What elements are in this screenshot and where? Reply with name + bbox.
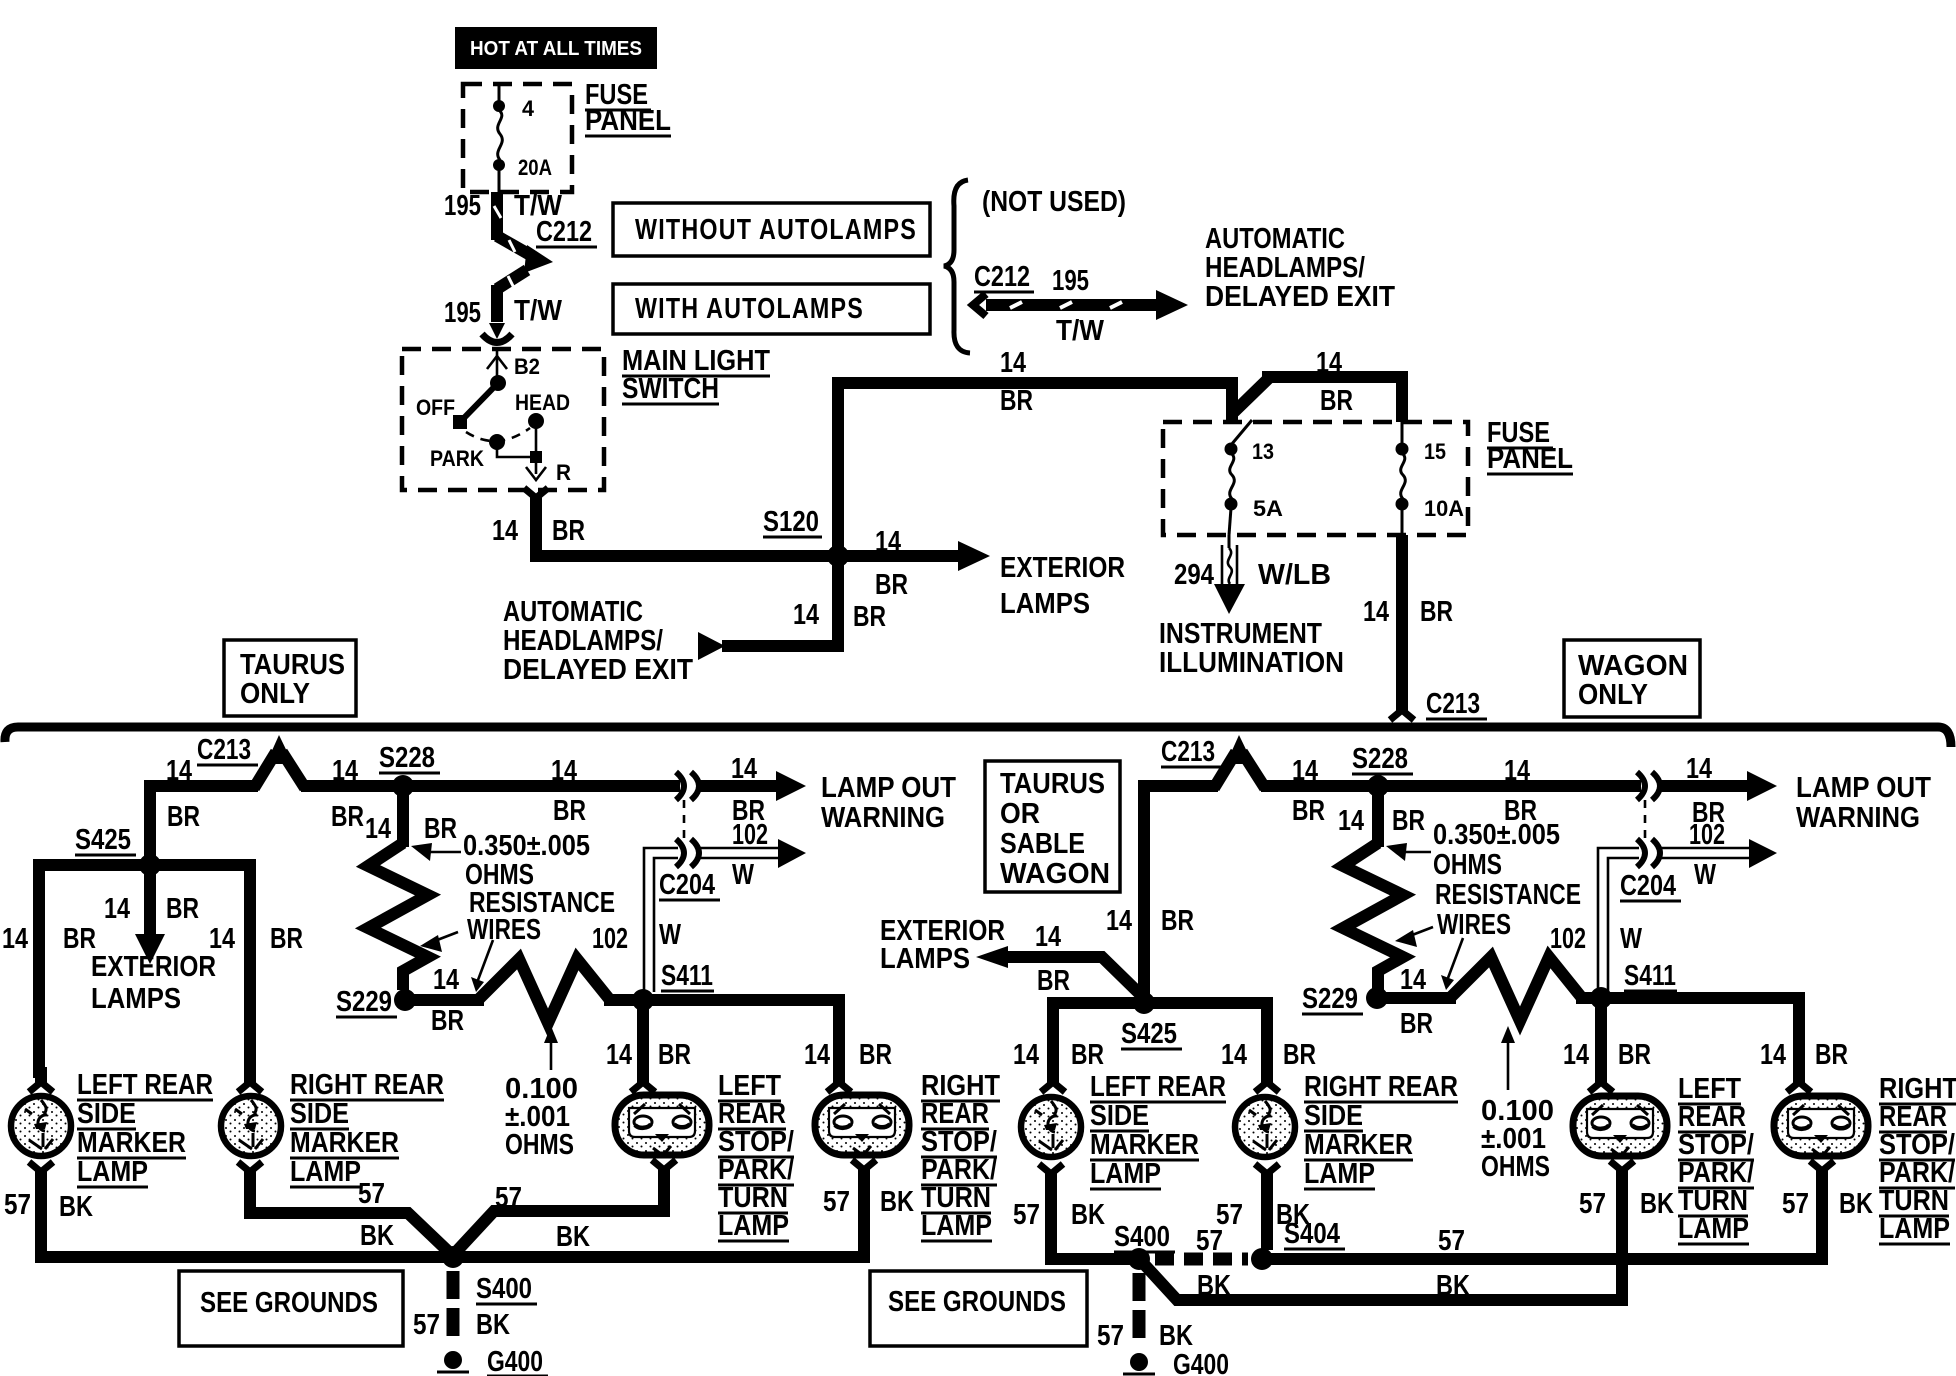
svg-text:BK: BK [1839, 1188, 1873, 1220]
connector at right marker lamp (taurus) [238, 1067, 262, 1092]
svg-text:BR: BR [1161, 905, 1194, 937]
splice S229 (taurus) [336, 986, 416, 1018]
svg-text:BR: BR [1320, 385, 1353, 417]
svg-text:LAMP: LAMP [77, 1156, 148, 1188]
svg-text:S120: S120 [763, 506, 819, 538]
svg-text:T/W: T/W [514, 295, 563, 327]
svg-text:0.350±.005: 0.350±.005 [463, 830, 590, 862]
svg-text:S425: S425 [75, 824, 131, 856]
svg-text:C212: C212 [536, 216, 592, 248]
svg-text:LEFT REAR: LEFT REAR [1090, 1071, 1226, 1103]
svg-text:14: 14 [875, 526, 901, 558]
brace [944, 180, 970, 353]
svg-text:0.350±.005: 0.350±.005 [1433, 819, 1560, 851]
wire 14 BR S228 to C204 [403, 755, 680, 827]
thin wire 102 W arrow to lamp out warning (wagon) [1661, 819, 1777, 891]
dashed link S400 to S404 (wagon) [1155, 1225, 1248, 1302]
connector C204 chevrons power (wagon) [1637, 772, 1660, 800]
svg-text:57: 57 [1013, 1199, 1040, 1231]
connector below left stop lamp (taurus) [652, 1160, 676, 1185]
svg-text:BR: BR [553, 795, 586, 827]
svg-text:BK: BK [476, 1309, 510, 1341]
wire S411 to right stop lamp (wagon) [1601, 998, 1848, 1078]
svg-text:BR: BR [166, 893, 199, 925]
svg-text:102: 102 [732, 819, 768, 851]
ground wire 57 BK right stop lamp to S404 (wagon) [1267, 1179, 1873, 1259]
svg-text:SIDE: SIDE [77, 1098, 136, 1130]
svg-text:BR: BR [1400, 1008, 1433, 1040]
label EXTERIOR LAMPS (wagon) [880, 915, 1005, 975]
contact OFF [416, 395, 467, 429]
ground G400 (wagon) [1123, 1349, 1229, 1376]
ground wire 57 BK left marker to S400 (taurus) [4, 1180, 448, 1257]
wire 14 BR S228 down to resistor (wagon) [1338, 786, 1425, 847]
label RIGHT REAR SIDE MARKER LAMP (taurus) [290, 1069, 444, 1188]
svg-text:14: 14 [433, 964, 459, 996]
ground wire 57 BK right marker to S400 (taurus) [250, 1178, 452, 1255]
svg-text:BR: BR [875, 569, 908, 601]
label 0.350 ohms resistance wires (taurus) [463, 830, 615, 946]
svg-text:BR: BR [1815, 1039, 1848, 1071]
svg-text:C212: C212 [974, 261, 1030, 293]
ground stub 57 BK S400 to G400 (taurus) [413, 1271, 510, 1341]
contact PARK [430, 434, 505, 471]
svg-text:WITH AUTOLAMPS: WITH AUTOLAMPS [635, 293, 864, 325]
svg-text:14: 14 [1363, 596, 1389, 628]
wire 14 BR feed to fuse panel (left segment) [838, 347, 1232, 422]
svg-text:S400: S400 [1114, 1221, 1170, 1253]
connector C212 autolamps branch [973, 261, 1188, 347]
svg-text:14: 14 [804, 1039, 830, 1071]
label INSTRUMENT ILLUMINATION [1159, 618, 1344, 679]
svg-text:BK: BK [360, 1220, 394, 1252]
label LAMP OUT WARNING (wagon) [1796, 772, 1931, 834]
label RIGHT REAR SIDE MARKER LAMP (wagon) [1304, 1071, 1458, 1190]
svg-text:BR: BR [1420, 596, 1453, 628]
arrow 14 BR to lamp out warning (taurus) [700, 753, 806, 827]
wire S411 to left stop lamp (taurus) [604, 1000, 691, 1078]
svg-text:S411: S411 [661, 960, 713, 992]
lamp right rear side marker (taurus) [221, 1096, 281, 1156]
svg-text:S229: S229 [1302, 983, 1358, 1015]
ground wire 57 BK right marker to S404 (wagon) [1216, 1182, 1310, 1250]
tag box TAURUS OR SABLE WAGON [985, 761, 1120, 892]
wire 14 BR fuse 15 down to C213 [1363, 535, 1453, 708]
svg-text:14: 14 [166, 755, 192, 787]
connector at right stop lamp (taurus) [827, 1067, 851, 1092]
svg-text:BK: BK [1640, 1188, 1674, 1220]
svg-text:S228: S228 [379, 742, 435, 774]
svg-text:57: 57 [823, 1186, 850, 1218]
ground wire 57 BK left stop lamp to S400 (wagon) [1143, 1179, 1674, 1300]
arrow exterior lamps feed (wagon) [976, 921, 1147, 1001]
fuse 15 10A [1396, 422, 1465, 535]
svg-text:57: 57 [1579, 1188, 1606, 1220]
svg-text:PANEL: PANEL [1487, 443, 1573, 475]
svg-text:14: 14 [1221, 1039, 1247, 1071]
svg-text:BR: BR [167, 801, 200, 833]
wire 14 BR from switch to S120 [492, 508, 838, 562]
svg-text:OR: OR [1000, 798, 1040, 830]
svg-text:C213: C213 [197, 734, 251, 766]
svg-text:WAGON: WAGON [1578, 650, 1688, 682]
label LEFT REAR SIDE MARKER LAMP (taurus) [77, 1069, 213, 1188]
svg-text:RESISTANCE: RESISTANCE [1435, 879, 1581, 911]
svg-text:WIRES: WIRES [1437, 909, 1511, 941]
svg-text:SWITCH: SWITCH [622, 373, 719, 405]
connector below right marker lamp (wagon) [1255, 1164, 1279, 1189]
switch internal wiring to R [497, 421, 571, 485]
wire S411 to right stop lamp (taurus) [643, 1000, 892, 1078]
svg-text:BK: BK [1436, 1270, 1470, 1302]
annotation arrow to 0.100 wire (wagon) [1441, 938, 1463, 990]
svg-text:10A: 10A [1424, 496, 1464, 521]
svg-text:57: 57 [1438, 1225, 1465, 1257]
wire S425 to right marker lamp (wagon) [1144, 1003, 1316, 1078]
wire S425 to left marker lamp (wagon) [1013, 1003, 1144, 1078]
ground G400 (taurus) [437, 1346, 548, 1376]
wire riser S120 up to BR feed [832, 377, 844, 556]
svg-text:195: 195 [444, 190, 481, 222]
svg-text:LAMPS: LAMPS [880, 943, 970, 975]
svg-text:102: 102 [1689, 819, 1725, 851]
option box WITH AUTOLAMPS [613, 284, 930, 334]
svg-text:ONLY: ONLY [1578, 679, 1648, 711]
connector at main light switch B2 [482, 323, 512, 343]
svg-text:14: 14 [104, 893, 130, 925]
annotation arrow to 0.100 wire (taurus) [471, 940, 493, 992]
svg-text:W: W [1620, 923, 1643, 955]
wire 195 T/W lower [444, 285, 563, 329]
svg-text:195: 195 [1052, 265, 1089, 297]
connector C212 (in-line) [494, 206, 597, 312]
svg-text:S228: S228 [1352, 743, 1408, 775]
connector C204 chevrons sense (wagon) [1620, 839, 1681, 902]
svg-text:HEADLAMPS/: HEADLAMPS/ [503, 625, 663, 657]
svg-text:14: 14 [1035, 921, 1061, 953]
splice S228 (taurus) [379, 742, 440, 797]
switch throw arc [466, 428, 530, 441]
svg-text:5A: 5A [1253, 496, 1283, 521]
connector C213 lower (taurus) [197, 734, 305, 788]
svg-text:195: 195 [444, 297, 481, 329]
splice S120 [763, 506, 849, 567]
wire 14 BR C213 to S228 [301, 755, 403, 833]
svg-text:14: 14 [2, 923, 28, 955]
svg-text:EXTERIOR: EXTERIOR [1000, 552, 1125, 584]
svg-text:14: 14 [731, 753, 757, 785]
annotation arrow 0.100 (taurus) [544, 1026, 558, 1070]
svg-text:W/LB: W/LB [1258, 559, 1331, 591]
connector below right marker lamp (taurus) [238, 1162, 262, 1187]
svg-text:4: 4 [522, 96, 535, 121]
wire 14 BR S229 to 0.100 resistor [405, 964, 484, 1037]
svg-text:S404: S404 [1284, 1218, 1340, 1250]
splice S425 (taurus) [75, 824, 161, 876]
svg-text:57: 57 [495, 1182, 522, 1214]
svg-text:C204: C204 [1620, 870, 1676, 902]
svg-text:BR: BR [1071, 1039, 1104, 1071]
annotation arrow lower resistor (taurus) [420, 932, 458, 952]
svg-text:AUTOMATIC: AUTOMATIC [1205, 223, 1345, 255]
splice S400 (taurus) [442, 1246, 537, 1305]
fuse 13 5A [1225, 420, 1284, 535]
thin wire 102 W from C204 down to S411 (wagon) [1598, 848, 1643, 992]
svg-text:MARKER: MARKER [290, 1127, 399, 1159]
label 0.350 ohms resistance wires (wagon) [1433, 819, 1581, 941]
svg-text:102: 102 [1550, 923, 1586, 955]
svg-text:RIGHT REAR: RIGHT REAR [290, 1069, 444, 1101]
fuse 4 20A [493, 84, 552, 192]
lamp right rear stop/park/turn (wagon) [1774, 1096, 1868, 1156]
svg-text:LAMP: LAMP [1090, 1158, 1161, 1190]
label FUSE PANEL (upper) [585, 79, 671, 137]
annotation arrow lower resistor (wagon) [1395, 927, 1433, 947]
svg-text:14: 14 [1013, 1039, 1039, 1071]
option box WITHOUT AUTOLAMPS [613, 203, 930, 256]
connector at left stop lamp (taurus) [631, 1067, 655, 1092]
svg-text:20A: 20A [518, 155, 552, 180]
svg-text:TAURUS: TAURUS [1000, 768, 1105, 800]
svg-text:OHMS: OHMS [1433, 849, 1502, 881]
svg-text:14: 14 [1106, 905, 1132, 937]
ground stub 57 BK S400 to G400 (wagon) [1097, 1273, 1193, 1352]
svg-text:BK: BK [59, 1191, 93, 1223]
ground wire 57 BK left marker to S400 (wagon) [1013, 1182, 1139, 1259]
svg-text:MARKER: MARKER [77, 1127, 186, 1159]
svg-text:BR: BR [853, 601, 886, 633]
fuse panel (lower) dashed box [1163, 422, 1468, 535]
connector at left marker lamp (taurus) [29, 1067, 53, 1092]
svg-text:C213: C213 [1426, 688, 1480, 720]
splice S228 (wagon) [1352, 743, 1413, 797]
svg-text:BR: BR [1292, 795, 1325, 827]
svg-text:HOT AT ALL TIMES: HOT AT ALL TIMES [470, 38, 642, 60]
svg-text:W: W [1694, 859, 1717, 891]
thin wire 102 W arrow to lamp out warning (taurus) [700, 819, 806, 891]
svg-text:SEE GROUNDS: SEE GROUNDS [200, 1287, 378, 1319]
wire 14 BR S228 to C204 (wagon) [1378, 755, 1641, 827]
connector at left stop lamp (wagon) [1589, 1067, 1613, 1092]
label LEFT REAR STOP/PARK/TURN LAMP (taurus) [718, 1070, 794, 1242]
svg-text:W: W [732, 859, 755, 891]
connector below switch R [524, 488, 548, 513]
ground wire 57 BK left stop lamp to S400 (taurus) [455, 1178, 664, 1253]
svg-text:DELAYED EXIT: DELAYED EXIT [503, 654, 693, 686]
svg-text:SEE GROUNDS: SEE GROUNDS [888, 1286, 1066, 1318]
svg-text:57: 57 [4, 1189, 31, 1221]
label RIGHT REAR STOP/PARK/TURN LAMP (taurus) [921, 1070, 1000, 1242]
svg-text:LAMP: LAMP [921, 1210, 992, 1242]
svg-text:OHMS: OHMS [1481, 1151, 1550, 1183]
label LEFT REAR STOP/PARK/TURN LAMP (wagon) [1678, 1073, 1754, 1245]
label EXTERIOR LAMPS (taurus) [91, 951, 216, 1015]
connector C204 dashed link [683, 800, 686, 840]
note box SEE GROUNDS (taurus) [179, 1271, 403, 1346]
svg-text:HEAD: HEAD [515, 390, 570, 415]
splice S404 (wagon) [1251, 1218, 1345, 1270]
svg-text:(NOT USED): (NOT USED) [982, 186, 1126, 218]
thin wire 102 W from C204 down to S411 (taurus) [644, 848, 682, 992]
svg-text:14: 14 [551, 755, 577, 787]
lamp left rear side marker (wagon) [1021, 1097, 1081, 1157]
svg-text:BR: BR [1000, 385, 1033, 417]
svg-text:C213: C213 [1161, 736, 1215, 768]
svg-text:S425: S425 [1121, 1018, 1177, 1050]
svg-text:BR: BR [424, 813, 457, 845]
svg-text:MARKER: MARKER [1304, 1129, 1413, 1161]
label FUSE PANEL (lower) [1487, 417, 1573, 475]
svg-text:SABLE: SABLE [1000, 828, 1085, 860]
svg-text:14: 14 [1563, 1039, 1589, 1071]
resistance wire 0.100 ohms (taurus) [478, 959, 610, 1023]
annotation arrow upper resistor (taurus) [411, 843, 461, 861]
lamp left rear stop/park/turn (wagon) [1573, 1096, 1667, 1156]
svg-text:BR: BR [1392, 805, 1425, 837]
wire 14 BR S228 down to resistor (taurus) [365, 786, 457, 847]
svg-text:RIGHT REAR: RIGHT REAR [1304, 1071, 1458, 1103]
connector at left marker lamp (wagon) [1041, 1067, 1065, 1092]
wire S411 to left stop lamp (wagon) [1563, 998, 1651, 1078]
wire 294 W/LB to instrument illumination [1174, 535, 1331, 614]
svg-text:BR: BR [859, 1039, 892, 1071]
note box SEE GROUNDS (wagon) [870, 1271, 1087, 1346]
connector at right stop lamp (wagon) [1787, 1067, 1811, 1092]
wire S425 to right marker lamp (taurus) [150, 865, 303, 1078]
splice S411 (wagon) [1590, 960, 1677, 1009]
connector below left marker lamp (wagon) [1039, 1164, 1063, 1189]
svg-text:14: 14 [606, 1039, 632, 1071]
svg-text:PARK: PARK [430, 446, 484, 471]
svg-text:EXTERIOR: EXTERIOR [91, 951, 216, 983]
switch wiper arm [461, 383, 498, 421]
splice S425 (wagon) [1121, 992, 1182, 1050]
connector at right marker lamp (wagon) [1255, 1067, 1279, 1092]
svg-text:LAMP: LAMP [1879, 1213, 1950, 1245]
svg-text:W: W [659, 919, 682, 951]
svg-text:SIDE: SIDE [1304, 1100, 1363, 1132]
splice S229 (wagon) [1302, 983, 1388, 1015]
svg-text:AUTOMATIC: AUTOMATIC [503, 596, 643, 628]
arrow exterior lamps (taurus S425) [104, 865, 199, 964]
wire 14 BR S229 to 0.100 resistor (wagon) [1377, 964, 1456, 1040]
resistance wire 0.100 ohms (wagon) [1450, 957, 1582, 1021]
power tag HOT AT ALL TIMES [455, 27, 657, 69]
svg-text:57: 57 [413, 1309, 440, 1341]
svg-text:T/W: T/W [1056, 315, 1105, 347]
svg-text:BK: BK [1197, 1270, 1231, 1302]
svg-text:C204: C204 [659, 869, 715, 901]
svg-text:G400: G400 [487, 1346, 543, 1376]
svg-text:BR: BR [1037, 965, 1070, 997]
label 0.100 ohms (wagon) [1481, 1095, 1554, 1183]
connector C204 chevrons (power) [676, 772, 699, 800]
switch terminal B2 [487, 351, 540, 391]
svg-text:S229: S229 [336, 986, 392, 1018]
svg-text:13: 13 [1252, 439, 1274, 464]
annotation arrow 0.100 (wagon) [1501, 1026, 1515, 1090]
lamp left rear side marker (taurus) [11, 1096, 71, 1156]
svg-text:BK: BK [1071, 1199, 1105, 1231]
svg-text:14: 14 [1316, 347, 1342, 379]
svg-text:OHMS: OHMS [505, 1129, 574, 1161]
svg-text:WARNING: WARNING [1796, 802, 1920, 834]
main light switch dashed box [402, 349, 604, 490]
tag box WAGON ONLY [1564, 640, 1700, 717]
svg-text:14: 14 [1338, 805, 1364, 837]
svg-text:14: 14 [209, 923, 235, 955]
splice S411 (taurus) [632, 960, 714, 1011]
svg-text:57: 57 [1097, 1320, 1124, 1352]
svg-text:LAMP: LAMP [1678, 1213, 1749, 1245]
label AUTOMATIC HEADLAMPS/DELAYED EXIT (left) [503, 596, 693, 686]
svg-text:WITHOUT AUTOLAMPS: WITHOUT AUTOLAMPS [635, 214, 917, 246]
svg-text:SIDE: SIDE [1090, 1100, 1149, 1132]
svg-text:PANEL: PANEL [585, 105, 671, 137]
svg-text:14: 14 [1760, 1039, 1786, 1071]
svg-text:LAMPS: LAMPS [1000, 588, 1090, 620]
svg-text:INSTRUMENT: INSTRUMENT [1159, 618, 1322, 650]
svg-text:57: 57 [1782, 1188, 1809, 1220]
wire 14 BR C213 to S425 riser (wagon) [1106, 786, 1218, 1003]
svg-text:BK: BK [556, 1221, 590, 1253]
svg-text:R: R [556, 460, 571, 485]
svg-text:14: 14 [793, 599, 819, 631]
svg-text:14: 14 [365, 813, 391, 845]
svg-text:S411: S411 [1624, 960, 1676, 992]
svg-text:14: 14 [1686, 753, 1712, 785]
wire 14 BR feed (right segment to fuse 15) [1234, 347, 1402, 422]
svg-text:DELAYED EXIT: DELAYED EXIT [1205, 281, 1395, 313]
svg-text:MARKER: MARKER [1090, 1129, 1199, 1161]
svg-text:BR: BR [431, 1005, 464, 1037]
label AUTOMATIC HEADLAMPS/DELAYED EXIT (right) [1205, 223, 1395, 313]
annotation arrow upper resistor (wagon) [1386, 843, 1431, 861]
svg-text:BR: BR [331, 801, 364, 833]
connector below left stop lamp (wagon) [1610, 1161, 1634, 1186]
label MAIN LIGHT SWITCH [622, 345, 770, 405]
svg-text:BR: BR [1283, 1039, 1316, 1071]
connector below right stop lamp (wagon) [1810, 1161, 1834, 1186]
wire 14 BR C213 to S425 riser [150, 755, 258, 865]
label EXTERIOR LAMPS (top) [1000, 552, 1125, 620]
svg-text:BR: BR [552, 515, 585, 547]
wire 57 BK S404 continues right [1436, 1225, 1470, 1302]
svg-text:102: 102 [592, 923, 628, 955]
svg-text:57: 57 [1196, 1225, 1223, 1257]
connector C213 upper half [1390, 688, 1487, 720]
svg-text:BR: BR [658, 1039, 691, 1071]
connector below left marker lamp (taurus) [29, 1162, 53, 1187]
label RIGHT REAR STOP/PARK/TURN LAMP (wagon) [1879, 1073, 1956, 1245]
svg-text:OFF: OFF [416, 395, 455, 420]
lamp left rear stop/park/turn (taurus) [615, 1095, 709, 1155]
svg-text:14: 14 [332, 755, 358, 787]
svg-text:LAMP OUT: LAMP OUT [1796, 772, 1931, 804]
connector C213 lower (wagon) [1161, 735, 1265, 788]
svg-text:LAMP: LAMP [290, 1156, 361, 1188]
arrow 14 BR to lamp out warning (wagon) [1661, 753, 1777, 829]
connector below right stop lamp (taurus) [852, 1160, 876, 1185]
svg-text:14: 14 [1292, 755, 1318, 787]
arrow exterior lamps (taurus top) [838, 526, 990, 601]
svg-text:BR: BR [63, 923, 96, 955]
contact HEAD [515, 390, 570, 429]
label 0.100 ohms (taurus) [505, 1073, 578, 1161]
svg-text:LAMP: LAMP [1304, 1158, 1375, 1190]
svg-text:SIDE: SIDE [290, 1098, 349, 1130]
wire to automatic headlamps (down from S120) [698, 556, 886, 660]
